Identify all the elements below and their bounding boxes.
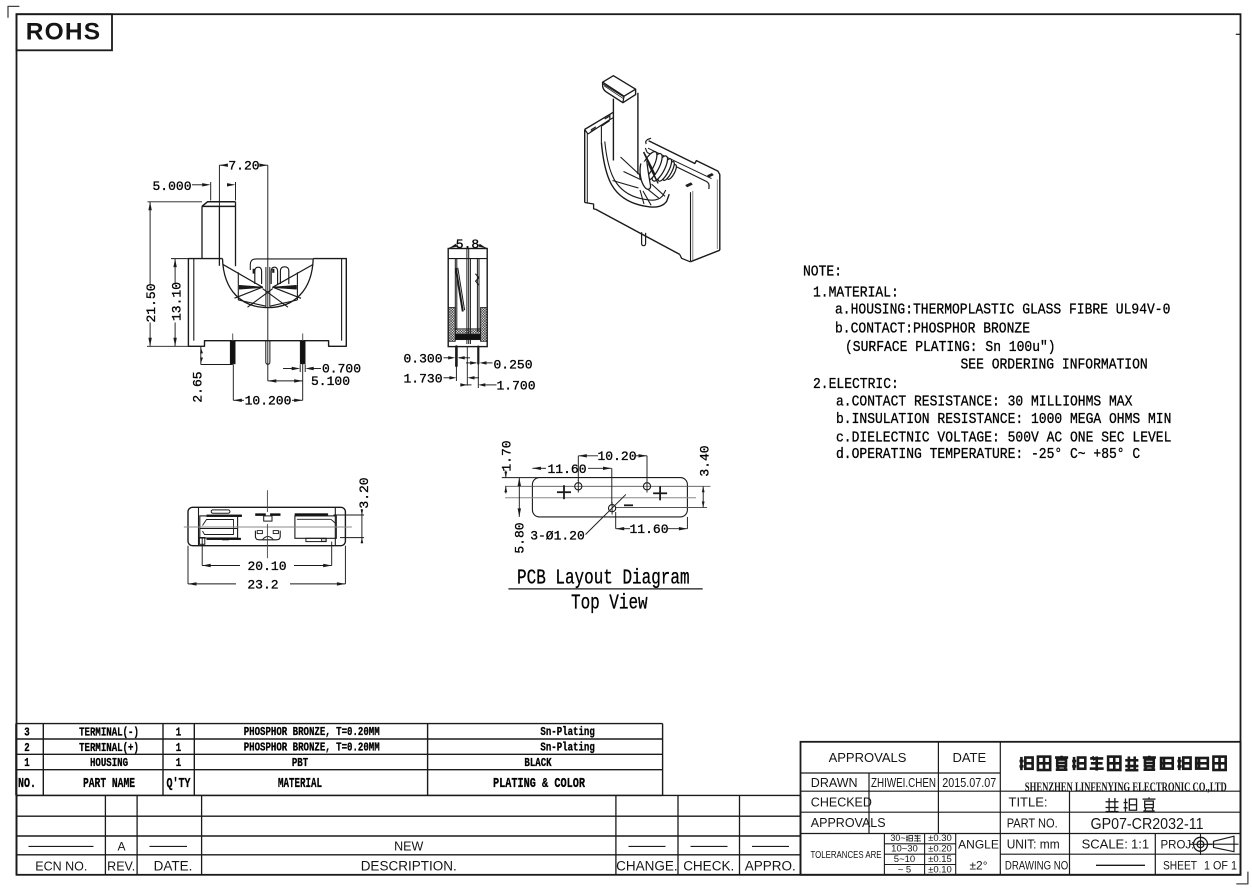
isometric: left wall foot	[585, 203, 596, 210]
front view: cavity rim rounded corner	[250, 259, 313, 270]
dimension 3.20	[334, 514, 365, 516]
svg-text:PBT: PBT	[292, 756, 308, 770]
svg-text:1:1: 1:1	[1131, 836, 1149, 851]
front view: left contact blade	[240, 286, 263, 289]
svg-text:TERMINAL(+): TERMINAL(+)	[79, 741, 139, 755]
side view: left crosshatch strip	[448, 308, 455, 342]
pcb layout: hole 1	[575, 483, 582, 490]
tolerance sub-table	[883, 834, 885, 875]
isometric: tab arm edges	[612, 99, 614, 161]
isometric: tab cap top face	[603, 76, 636, 97]
isometric: right slab top inner edge	[646, 138, 651, 144]
front view: tab cap	[202, 202, 236, 207]
svg-text:±0.20: ±0.20	[928, 844, 952, 855]
svg-text:3: 3	[24, 726, 29, 740]
bottom view: left pocket corner box	[199, 538, 204, 545]
svg-text:3-Ø1.20: 3-Ø1.20	[530, 529, 585, 544]
svg-text:Sn-Plating: Sn-Plating	[540, 741, 594, 755]
svg-text:10~30: 10~30	[891, 844, 918, 855]
ROHS label box	[17, 14, 113, 50]
svg-text:a.HOUSING:THERMOPLASTIC GLASS: a.HOUSING:THERMOPLASTIC GLASS FIBRE UL94…	[835, 301, 1170, 318]
pcb layout: hole 3	[609, 505, 616, 512]
corner mark top-left	[8, 6, 19, 17]
isometric: right slab inner vertical	[690, 192, 692, 261]
svg-text:ZHIWEI.CHEN: ZHIWEI.CHEN	[871, 776, 936, 790]
svg-text:1: 1	[176, 726, 181, 740]
side view: bottom crosshatch bar	[455, 329, 480, 334]
pcb layout: minus symbol	[624, 504, 633, 506]
svg-text:PART NAME: PART NAME	[83, 776, 135, 792]
isometric: left wall front corner line	[586, 134, 588, 203]
svg-text:5.000: 5.000	[153, 179, 192, 194]
bottom view: inner side walls	[198, 507, 200, 545]
side view: outer body	[448, 249, 487, 347]
svg-text:10.20: 10.20	[598, 449, 637, 464]
isometric: right slab right edges	[719, 179, 721, 251]
bottom view: right pocket	[295, 516, 336, 538]
svg-text:APPROVALS: APPROVALS	[811, 816, 886, 830]
svg-text:3.40: 3.40	[698, 445, 713, 476]
front view: contact loop 1	[255, 267, 262, 284]
svg-text:BLACK: BLACK	[524, 756, 552, 770]
side view: internal vertical walls	[454, 259, 456, 330]
svg-text:±2°: ±2°	[969, 859, 987, 873]
isometric: left wall rim	[585, 114, 610, 129]
revision NEW row	[29, 845, 94, 847]
dimension 7.20	[219, 164, 227, 166]
svg-text:3.20: 3.20	[357, 477, 372, 508]
svg-text:NO.: NO.	[18, 776, 36, 792]
svg-text:1: 1	[176, 741, 181, 755]
parts table grid	[16, 723, 663, 725]
isometric: cavity outer arc	[601, 143, 669, 207]
bottom view: center bottom bracket	[255, 531, 280, 540]
corner mark bottom-right	[1236, 872, 1248, 884]
svg-text:~ 5: ~ 5	[898, 864, 911, 875]
dimension 2.65	[200, 346, 202, 364]
svg-text:Top View: Top View	[571, 593, 648, 616]
svg-text:TERMINAL(-): TERMINAL(-)	[79, 726, 139, 740]
bottom view: center top bars	[255, 514, 265, 516]
svg-text:HOUSING: HOUSING	[90, 756, 128, 770]
dimension 23.2	[187, 546, 189, 584]
isometric: right slab bottom edge	[690, 250, 720, 262]
svg-text:TITLE:: TITLE:	[1009, 795, 1048, 810]
front view: right solder pin	[300, 341, 305, 364]
side view: spring hatch band left	[456, 268, 463, 311]
pcb layout: hole center ticks	[577, 480, 579, 492]
front view: lower cross lines	[238, 300, 266, 306]
svg-text:2015.07.07: 2015.07.07	[942, 776, 996, 790]
svg-text:a.CONTACT RESISTANCE: 30 MILLI: a.CONTACT RESISTANCE: 30 MILLIOHMS MAX	[836, 394, 1132, 411]
pcb layout: hole centerline horizontal	[505, 485, 710, 487]
bottom view: left pocket bottom bar	[207, 538, 241, 540]
svg-text:CHANGE.: CHANGE.	[616, 859, 678, 874]
pcb layout: top edge extension line	[502, 477, 539, 479]
svg-text:0.250: 0.250	[494, 357, 533, 372]
svg-text:1: 1	[176, 756, 181, 770]
tolerance row1 chinese yi shang	[906, 835, 908, 842]
svg-text:7.20: 7.20	[228, 159, 259, 174]
svg-text:11.60: 11.60	[630, 522, 669, 537]
svg-text:DATE.: DATE.	[154, 859, 193, 874]
svg-text:2: 2	[24, 741, 29, 755]
bottom view: right pocket bottom details	[306, 538, 326, 541]
bottom view: outer outline	[188, 507, 345, 545]
svg-text:Q'TY: Q'TY	[167, 776, 191, 792]
proj symbol crosshair	[1194, 837, 1208, 851]
svg-text:5.8: 5.8	[456, 237, 479, 252]
pcb layout: hole 2	[643, 483, 650, 490]
isometric: cavity spokes	[621, 157, 642, 177]
svg-text:SHENZHEN LINFENYING ELECTRONIC: SHENZHEN LINFENYING ELECTRONIC CO.,LTD	[1025, 780, 1227, 794]
svg-text:13.10: 13.10	[169, 282, 184, 321]
side view: center line below	[466, 347, 468, 386]
svg-text:DRAWING NO.: DRAWING NO.	[1005, 860, 1071, 872]
right border tick	[1236, 33, 1241, 35]
isometric: left wall outer edge	[584, 129, 586, 202]
svg-text:PLATING & COLOR: PLATING & COLOR	[493, 776, 585, 792]
svg-text:1.70: 1.70	[500, 440, 515, 471]
bottom view: left pocket top bar	[207, 515, 242, 517]
front view: left solder pin	[230, 341, 235, 364]
svg-text:b.INSULATION RESISTANCE: 1000: b.INSULATION RESISTANCE: 1000 MEGA OHMS …	[836, 411, 1171, 428]
svg-text:±0.30: ±0.30	[928, 833, 952, 844]
svg-text:SCALE:: SCALE:	[1082, 836, 1128, 851]
svg-text:PHOSPHOR BRONZE, T=0.20MM: PHOSPHOR BRONZE, T=0.20MM	[244, 741, 380, 755]
svg-text:11.60: 11.60	[548, 462, 587, 477]
svg-text:1.MATERIAL:: 1.MATERIAL:	[813, 284, 899, 301]
svg-text:23.2: 23.2	[247, 577, 278, 592]
svg-text:ECN NO.: ECN NO.	[35, 859, 87, 873]
front view: retention tab arm	[201, 206, 203, 258]
svg-text:Sn-Plating: Sn-Plating	[540, 725, 594, 739]
side view: left pin	[455, 347, 458, 366]
isometric: cavity inner arc	[605, 142, 666, 201]
side view: right pin	[477, 347, 479, 364]
svg-text:1.700: 1.700	[497, 378, 536, 393]
svg-text:1 OF 1: 1 OF 1	[1204, 860, 1237, 872]
front view: contact loop 2	[271, 267, 277, 284]
dimension 5.80	[518, 478, 520, 517]
svg-text:DRAWN: DRAWN	[811, 776, 858, 790]
title block horizontal lines	[801, 772, 1001, 774]
front view: contact loop 3	[280, 267, 288, 284]
svg-text:c.DIELECTNIC VOLTAGE: 500V AC: c.DIELECTNIC VOLTAGE: 500V AC ONE SEC LE…	[836, 429, 1171, 446]
pcb layout: plus symbol left	[557, 491, 571, 493]
bottom view: top-left rim slot	[211, 510, 230, 513]
isometric: spring coil loops	[665, 163, 678, 180]
svg-text:5.100: 5.100	[311, 374, 350, 389]
svg-text:NEW: NEW	[394, 840, 423, 854]
svg-text:20.10: 20.10	[248, 559, 287, 574]
dimension 1.70	[505, 471, 507, 478]
dimension 11.60 top	[532, 467, 546, 469]
title value chinese dian chi zuo	[1108, 798, 1110, 812]
svg-text:TOLERANCES ARE: TOLERANCES ARE	[811, 849, 882, 861]
svg-text:b.CONTACT:PHOSPHOR BRONZE: b.CONTACT:PHOSPHOR BRONZE	[835, 321, 1030, 338]
front view: left wedge spring lines	[223, 264, 263, 298]
svg-text:d.OPERATING TEMPERATURE: -25°: d.OPERATING TEMPERATURE: -25° C~ +85° C	[836, 446, 1140, 463]
dimension 13.10	[174, 259, 176, 285]
svg-text:10.200: 10.200	[245, 394, 292, 409]
svg-text:PART NO.: PART NO.	[1007, 815, 1058, 830]
svg-text:ANGLE: ANGLE	[958, 838, 999, 852]
isometric: left rim slot marks	[605, 116, 610, 119]
side view: top internal line	[448, 258, 487, 260]
side view: bottom contact black bar	[455, 334, 480, 340]
svg-text:PROJ:: PROJ:	[1161, 839, 1195, 851]
revision table grid	[17, 794, 801, 796]
svg-text:SHEET: SHEET	[1163, 860, 1197, 872]
svg-text:1.730: 1.730	[404, 371, 443, 386]
pcb layout: plus symbol right	[653, 492, 667, 494]
svg-text:30~: 30~	[890, 833, 905, 843]
company name chinese (drawn glyphs)	[1020, 757, 1023, 770]
pcb layout: outline	[532, 478, 687, 517]
dimension 10.20	[578, 455, 598, 457]
dimension 0.700	[283, 368, 297, 370]
title block vertical lines	[868, 773, 870, 834]
svg-text:APPROVALS: APPROVALS	[829, 750, 907, 765]
isometric: right rim slot marks	[708, 174, 714, 178]
svg-text:(SURFACE PLATING: Sn 100u″): (SURFACE PLATING: Sn 100u″)	[845, 339, 1056, 356]
front view: body outline	[188, 259, 346, 347]
dimension 10.200	[233, 399, 244, 401]
svg-text:1: 1	[24, 756, 29, 770]
svg-text:PCB Layout Diagram: PCB Layout Diagram	[517, 568, 690, 591]
svg-text:5.80: 5.80	[513, 522, 528, 553]
svg-text:2.ELECTRIC:: 2.ELECTRIC:	[813, 376, 899, 393]
svg-text:DATE: DATE	[952, 750, 986, 765]
svg-text:SEE ORDERING INFORMATION: SEE ORDERING INFORMATION	[961, 357, 1148, 374]
front view: right contact blade	[273, 286, 296, 289]
bottom view: right pocket top bar	[295, 514, 328, 516]
side view: spring zigzag right	[475, 274, 479, 285]
proj symbol cone	[1214, 836, 1235, 852]
dimension 11.60 bottom	[616, 528, 630, 530]
dimension 3.40	[702, 486, 704, 507]
front view: center pin outline	[266, 341, 270, 365]
front view: inner wall lines	[193, 259, 195, 341]
isometric: tab cap chamfer lines	[603, 84, 624, 97]
dimension 20.10	[201, 538, 203, 566]
front view: center vertical contact lines	[265, 267, 267, 307]
svg-text:CHECKED: CHECKED	[811, 796, 872, 810]
dimension 5.100	[268, 380, 303, 382]
dimension 21.50	[148, 201, 203, 203]
front view: contact tails black marks	[253, 269, 255, 274]
svg-text:NOTE:: NOTE:	[803, 263, 842, 280]
bottom view: centerlines	[184, 526, 352, 528]
isometric: bottom front edge	[596, 209, 680, 254]
pcb layout: mid centerline	[505, 497, 696, 499]
svg-text:0.300: 0.300	[404, 351, 443, 366]
side view: right crosshatch strip	[481, 308, 488, 342]
svg-text:2.65: 2.65	[191, 371, 206, 402]
svg-text:21.50: 21.50	[144, 284, 159, 323]
isometric: solder pin	[642, 232, 646, 245]
bottom view: left pocket	[200, 516, 238, 538]
pcb layout: lower hole line	[615, 507, 707, 509]
svg-text:UNIT: mm: UNIT: mm	[1007, 836, 1060, 851]
isometric: spring hatch strokes	[644, 152, 649, 163]
front view: cavity semicircle	[223, 259, 314, 308]
isometric: contact finger	[640, 161, 650, 190]
front view: right wedge spring lines	[273, 265, 313, 299]
svg-text:±0.10: ±0.10	[928, 864, 952, 875]
isometric: tab cap front faces	[603, 82, 636, 103]
svg-text:PHOSPHOR BRONZE, T=0.20MM: PHOSPHOR BRONZE, T=0.20MM	[244, 725, 380, 739]
isometric: left wall inner ledge	[601, 121, 609, 127]
svg-text:APPRO.: APPRO.	[745, 859, 796, 874]
svg-text:DESCRIPTION.: DESCRIPTION.	[361, 859, 457, 874]
svg-text:REV.: REV.	[107, 859, 135, 873]
svg-text:MATERIAL: MATERIAL	[278, 776, 322, 792]
svg-text:A: A	[117, 840, 125, 854]
isometric: bottom right foot notch	[680, 254, 691, 261]
svg-text:ROHS: ROHS	[26, 19, 102, 46]
svg-text:GP07-CR2032-11: GP07-CR2032-11	[1091, 816, 1204, 833]
svg-text:CHECK.: CHECK.	[683, 859, 734, 874]
isometric: right slab top outer edge	[649, 141, 720, 179]
title block outer	[801, 742, 1241, 875]
